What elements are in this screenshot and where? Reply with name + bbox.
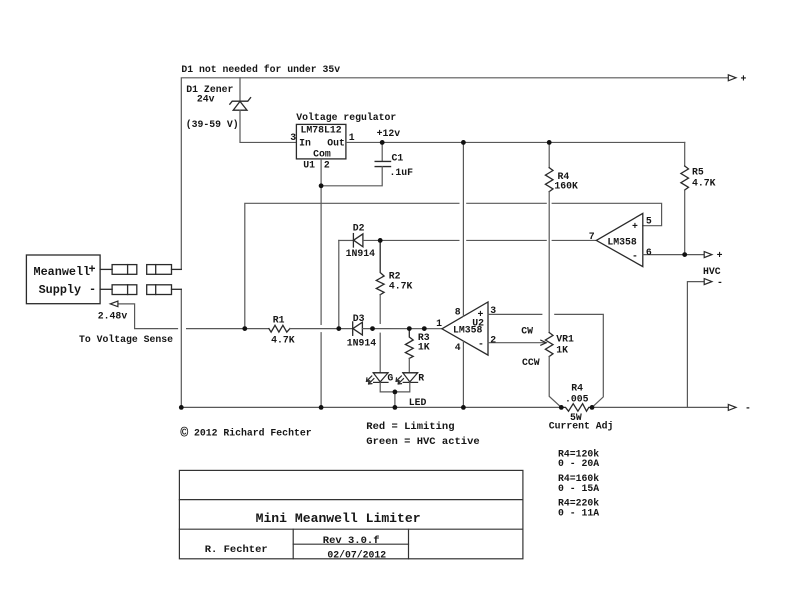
svg-text:0 - 15A: 0 - 15A [558, 483, 599, 494]
wire 2.48v sense stub [118, 304, 178, 329]
connector pair supply negative [100, 285, 181, 295]
node arrow VR1 wiper [541, 340, 546, 345]
svg-text:HVC: HVC [703, 266, 721, 277]
capacitor C1 .1uF [375, 161, 390, 166]
node arrow HVC - [704, 279, 712, 285]
svg-text:-: - [717, 277, 723, 288]
wire HVC minus stub [687, 282, 704, 408]
svg-text:D3: D3 [353, 313, 365, 324]
svg-text:3: 3 [290, 132, 296, 143]
svg-text:Supply: Supply [39, 283, 81, 297]
resistor R3 1K [405, 329, 413, 359]
diode D1 zener [230, 98, 251, 111]
wire voltage sense feedback upper run [245, 203, 459, 328]
svg-text:7: 7 [589, 231, 595, 242]
svg-text:1N914: 1N914 [346, 248, 376, 259]
node arrow ground rail - [728, 404, 736, 410]
diode D3 1N914 [353, 322, 363, 335]
wire zener to regulator input [240, 110, 296, 142]
svg-text:LM358: LM358 [607, 237, 637, 248]
svg-text:-: - [89, 283, 96, 297]
svg-text:To Voltage Sense: To Voltage Sense [79, 334, 173, 345]
svg-text:24v: 24v [197, 94, 215, 105]
svg-text:Mini Meanwell Limiter: Mini Meanwell Limiter [256, 511, 421, 526]
svg-text:+: + [632, 221, 638, 232]
svg-text:2.48v: 2.48v [98, 310, 128, 321]
svg-text:LED: LED [409, 397, 427, 408]
svg-text:+: + [478, 309, 484, 320]
svg-text:R. Fechter: R. Fechter [205, 544, 268, 556]
svg-text:©: © [180, 427, 188, 442]
op-amp U2 LM358 triangle [442, 302, 488, 355]
svg-text:LM78L12: LM78L12 [301, 125, 342, 136]
svg-text:1N914: 1N914 [347, 338, 377, 349]
svg-text:8: 8 [455, 306, 461, 317]
op-amp U3 LM358 triangle [596, 213, 643, 266]
svg-text:2: 2 [324, 160, 330, 171]
svg-text:4.7K: 4.7K [389, 281, 413, 292]
svg-text:G: G [387, 373, 393, 384]
resistor R4 160K [545, 168, 553, 192]
wire U2 pin2 to VR1 wiper [488, 342, 546, 344]
potentiometer VR1 1K [545, 333, 553, 357]
svg-text:(39-59 V): (39-59 V) [186, 119, 239, 130]
node arrow HVC + [704, 252, 712, 258]
svg-text:Green = HVC active: Green = HVC active [366, 436, 479, 448]
svg-text:6: 6 [646, 247, 652, 258]
svg-text:4.7K: 4.7K [271, 334, 295, 345]
resistor R4 .005 5W shunt [561, 404, 592, 412]
svg-text:160K: 160K [554, 181, 578, 192]
diode D2 1N914 [353, 234, 363, 247]
svg-text:Rev 3.0.f: Rev 3.0.f [323, 535, 380, 547]
wire R1 to D3 [290, 328, 353, 330]
svg-text:5: 5 [646, 216, 652, 227]
svg-text:0 - 20A: 0 - 20A [558, 458, 599, 469]
svg-text:0 - 11A: 0 - 11A [558, 508, 599, 519]
svg-text:3: 3 [490, 305, 496, 316]
svg-text:In: In [299, 138, 311, 149]
svg-text:+: + [89, 263, 96, 277]
resistor R1 4.7K [269, 325, 290, 332]
wire U2 pin8 supply [462, 142, 464, 316]
wire R2 to green LED [379, 295, 381, 324]
svg-text:Voltage regulator: Voltage regulator [296, 112, 396, 123]
svg-text:R: R [418, 373, 424, 384]
svg-text:+: + [717, 250, 723, 261]
wire VR1 bottom to shunt left [549, 357, 561, 408]
wire D2 branch vertical [338, 240, 340, 328]
wire LED cathodes join [380, 382, 410, 392]
wire R4 160K branch [548, 142, 550, 167]
wire R3 to red LED [408, 358, 410, 372]
svg-text:-: - [632, 251, 638, 262]
svg-text:4.7K: 4.7K [692, 178, 716, 189]
LED red R [396, 373, 418, 384]
op-amp U1 regulator box LM78L12 [296, 124, 346, 158]
resistor R2 4.7K [376, 240, 384, 294]
svg-text:1: 1 [349, 132, 355, 143]
svg-text:Meanwell: Meanwell [34, 265, 91, 279]
svg-text:-: - [745, 403, 751, 414]
wire top positive rail [181, 78, 728, 270]
wire C1 branch [381, 142, 383, 161]
wire R5 to op-amp output node [684, 190, 686, 255]
svg-text:CCW: CCW [522, 357, 540, 368]
svg-text:D2: D2 [353, 223, 365, 234]
wire main horizontal to R1 [187, 328, 269, 330]
svg-text:1: 1 [436, 318, 442, 329]
svg-text:1K: 1K [418, 342, 430, 353]
svg-text:+: + [741, 73, 747, 84]
svg-text:Out: Out [327, 138, 345, 149]
wire D2 to U3 noninverting run [363, 239, 459, 241]
node arrow top rail + output [728, 75, 736, 81]
resistor R5 4.7K [681, 166, 689, 190]
svg-text:R1: R1 [273, 315, 285, 326]
svg-text:VR1: VR1 [556, 334, 574, 345]
svg-text:R4: R4 [571, 383, 583, 394]
svg-text:2: 2 [490, 334, 496, 345]
wire ground rail left segment [181, 289, 561, 407]
svg-text:CW: CW [521, 326, 533, 337]
box Meanwell Supply [26, 255, 100, 304]
svg-text:Red = Limiting: Red = Limiting [366, 421, 454, 433]
wire U2 pin3 feedback to shunt [488, 313, 542, 315]
svg-text:D1 not needed for under 35v: D1 not needed for under 35v [181, 64, 340, 75]
wire LED join to ground rail [394, 392, 396, 408]
wire zener branch from top rail down [239, 78, 241, 101]
svg-text:02/07/2012: 02/07/2012 [327, 550, 386, 561]
svg-text:U1: U1 [303, 160, 315, 171]
connector pair supply positive [100, 265, 181, 275]
svg-text:+12v: +12v [377, 128, 401, 139]
wire ground rail right segment [592, 406, 728, 408]
svg-text:.1uF: .1uF [390, 167, 414, 178]
wire regulator output +12v rail [346, 141, 685, 143]
wire C1 bottom return to com [321, 167, 382, 186]
wire R4 160K to VR1 [548, 192, 550, 333]
wire D3 to op-amp U2 output [362, 328, 442, 330]
wire U3 pin6 output to HVC+ [643, 254, 704, 256]
box title block [179, 470, 523, 558]
wire +12v rail corner down to R5 [684, 142, 686, 166]
svg-text:C1: C1 [392, 153, 404, 164]
svg-text:Current Adj: Current Adj [549, 421, 614, 432]
wire D2 branch horizontal [339, 239, 354, 241]
svg-text:2012 Richard Fechter: 2012 Richard Fechter [194, 428, 312, 439]
node junction dots [179, 140, 687, 410]
wire regulator com down to ground rail [320, 159, 322, 325]
wire U2 pin4 to ground rail [462, 341, 464, 407]
svg-text:R5: R5 [692, 167, 704, 178]
svg-text:LM358: LM358 [453, 324, 483, 335]
svg-text:-: - [478, 339, 484, 350]
svg-text:.005: .005 [565, 394, 589, 405]
LED green G [367, 373, 389, 384]
svg-text:Com: Com [313, 148, 331, 159]
svg-text:1K: 1K [556, 344, 568, 355]
node arrow 2.48v sense [110, 301, 118, 307]
svg-text:4: 4 [455, 342, 461, 353]
